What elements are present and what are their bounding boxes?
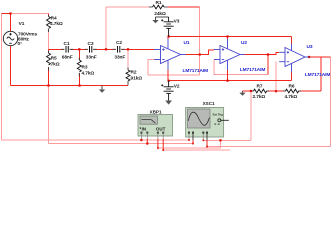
node C2/R2/U1+ junction — [127, 48, 129, 50]
wire bode OUT- row — [163, 149, 230, 151]
wire R1 right to U1 out node — [168, 6, 200, 8]
wire U2 feedback horizontal — [214, 60, 268, 75]
ground (bus, x=102) — [101, 86, 103, 90]
svg-text:R3: R3 — [82, 65, 88, 71]
svg-text:91kΩ: 91kΩ — [131, 76, 143, 82]
wire R7 node drop — [250, 91, 252, 140]
resistor R4 — [47, 17, 51, 29]
svg-text:R5: R5 — [51, 56, 57, 62]
svg-text:C2: C2 — [116, 40, 122, 46]
wire U3 out to R6 — [320, 57, 322, 91]
svg-text:LM7171AIM: LM7171AIM — [183, 68, 209, 74]
wire U2 feedback hook — [267, 55, 269, 75]
bode plotter XBP1 — [138, 115, 173, 137]
wire R7 R6 center leads — [267, 90, 277, 92]
node C1/C3/R3 junction — [78, 48, 80, 50]
wire U1 out to U2 in — [186, 50, 215, 55]
svg-text:R7: R7 — [257, 83, 263, 89]
resistor R7 leads — [252, 90, 269, 92]
wire V1 top — [2, 13, 11, 15]
node bode IN+ junction — [140, 139, 142, 141]
svg-text:7kΩ: 7kΩ — [51, 61, 60, 67]
svg-text:33nF: 33nF — [86, 54, 97, 60]
node C3/C2/R1 junction — [105, 48, 107, 50]
wire pink top row to R1 — [106, 6, 149, 8]
wire V1 bottom — [10, 46, 12, 86]
node V1+ top junction — [9, 12, 11, 14]
wire top row V1+ to R4 — [11, 13, 49, 15]
svg-text:R6: R6 — [289, 83, 295, 89]
oscilloscope XSC1 — [186, 108, 224, 138]
svg-text:XBP1: XBP1 — [150, 110, 162, 115]
ground (below V2) — [165, 101, 172, 105]
wire left border (input net) — [2, 7, 331, 150]
node R7/R6/U3- junction — [275, 90, 277, 92]
node V+ rail / V3 junction — [168, 35, 170, 37]
wire U2 out to U3 in — [245, 52, 280, 54]
svg-text:OUT: OUT — [156, 126, 166, 131]
resistor R1 (horizontal) — [149, 6, 153, 8]
node V- rail / U2 junction — [226, 80, 228, 82]
op-amp U2 — [214, 39, 245, 70]
wire U1 feedback — [148, 60, 200, 76]
wire V+ rail — [169, 36, 292, 38]
node V+ rail / U2 junction — [226, 35, 228, 37]
svg-text:V2: V2 — [174, 84, 180, 90]
ground (left of R7) — [242, 91, 244, 93]
svg-text:V3: V3 — [174, 18, 180, 24]
wire R4 bottom lead — [48, 29, 50, 49]
node V- rail / V2 junction — [168, 80, 170, 82]
battery V3 — [164, 17, 174, 37]
resistor R2 bottom lead — [127, 81, 129, 85]
capacitor C1 — [64, 48, 69, 51]
node scope B junction — [219, 139, 221, 141]
svg-text:33nF: 33nF — [114, 54, 125, 60]
resistor R5 leads — [48, 51, 50, 71]
resistor R2 top lead dark — [127, 68, 129, 71]
wire ground drop to instruments — [48, 86, 50, 144]
wire R5 leads — [48, 49, 50, 53]
svg-text:C1: C1 — [64, 41, 70, 47]
wire pink drop R1 left to C2/C3 node — [105, 7, 107, 49]
battery V2 — [164, 81, 174, 101]
wire right border U3 out down — [330, 57, 332, 147]
node ground bus / R3 junction — [78, 84, 80, 86]
wire cap row — [49, 48, 155, 50]
svg-text:U2: U2 — [241, 40, 247, 46]
wire R3 leads — [78, 49, 80, 60]
wire R4 top lead — [48, 14, 50, 17]
capacitor C3 — [88, 48, 93, 51]
wire ground bus — [11, 85, 129, 87]
svg-text:24kΩ: 24kΩ — [154, 11, 166, 17]
svg-text:C3: C3 — [88, 41, 94, 47]
wire bode OUT+ row — [158, 147, 221, 149]
resistor R6 leads — [283, 90, 301, 92]
svg-text:IN: IN — [142, 126, 147, 131]
svg-text:2.7kΩ: 2.7kΩ — [253, 94, 266, 100]
wire U3 out — [309, 56, 331, 58]
capacitor C2 — [116, 48, 121, 51]
resistor R7 (horizontal) — [254, 89, 267, 93]
svg-text:Ext Trig: Ext Trig — [213, 112, 223, 116]
svg-text:68nF: 68nF — [62, 54, 73, 60]
svg-text:0°: 0° — [18, 41, 23, 47]
svg-text:4.7kΩ: 4.7kΩ — [285, 94, 298, 100]
wire R2 top lead — [127, 49, 129, 70]
svg-text:LM7171AIM: LM7171AIM — [305, 72, 331, 78]
svg-text:XSC1: XSC1 — [203, 101, 215, 106]
svg-text:4.7kΩ: 4.7kΩ — [82, 71, 95, 77]
node U2 output junction — [267, 53, 269, 55]
svg-text:R1: R1 — [156, 0, 162, 6]
svg-text:U1: U1 — [184, 40, 190, 46]
node ground bus / R5 junction — [47, 84, 49, 86]
wire R1 corner down to U1 out — [199, 7, 201, 55]
node U1 output junction — [199, 53, 201, 55]
svg-text:4.7kΩ: 4.7kΩ — [50, 21, 63, 27]
svg-text:R2: R2 — [131, 70, 137, 76]
resistor R2 — [126, 70, 130, 81]
wire V- rail — [169, 80, 292, 82]
svg-text:LM7171AIM: LM7171AIM — [240, 67, 266, 73]
resistor R3 leads — [78, 58, 80, 77]
svg-text:V1: V1 — [19, 21, 25, 27]
svg-text:U3: U3 — [307, 44, 313, 50]
wire R7 left — [243, 90, 254, 92]
resistor R4 leads — [48, 15, 50, 32]
node U3 output junction — [308, 56, 310, 58]
svg-text:R4: R4 — [51, 15, 57, 21]
wire U3 feedback drop — [275, 62, 277, 91]
resistor R5 — [47, 53, 51, 65]
resistor R3 — [77, 60, 81, 72]
node bode IN- junction — [146, 142, 148, 144]
ground (top, near V3) — [156, 17, 169, 20]
op-amp U3 — [279, 44, 309, 73]
V1 AC source — [3, 31, 17, 45]
capacitor lead greys — [61, 48, 125, 50]
node R7 left junction — [250, 90, 252, 92]
op-amp U1 — [154, 39, 186, 70]
resistor R6 (horizontal) — [286, 89, 299, 93]
